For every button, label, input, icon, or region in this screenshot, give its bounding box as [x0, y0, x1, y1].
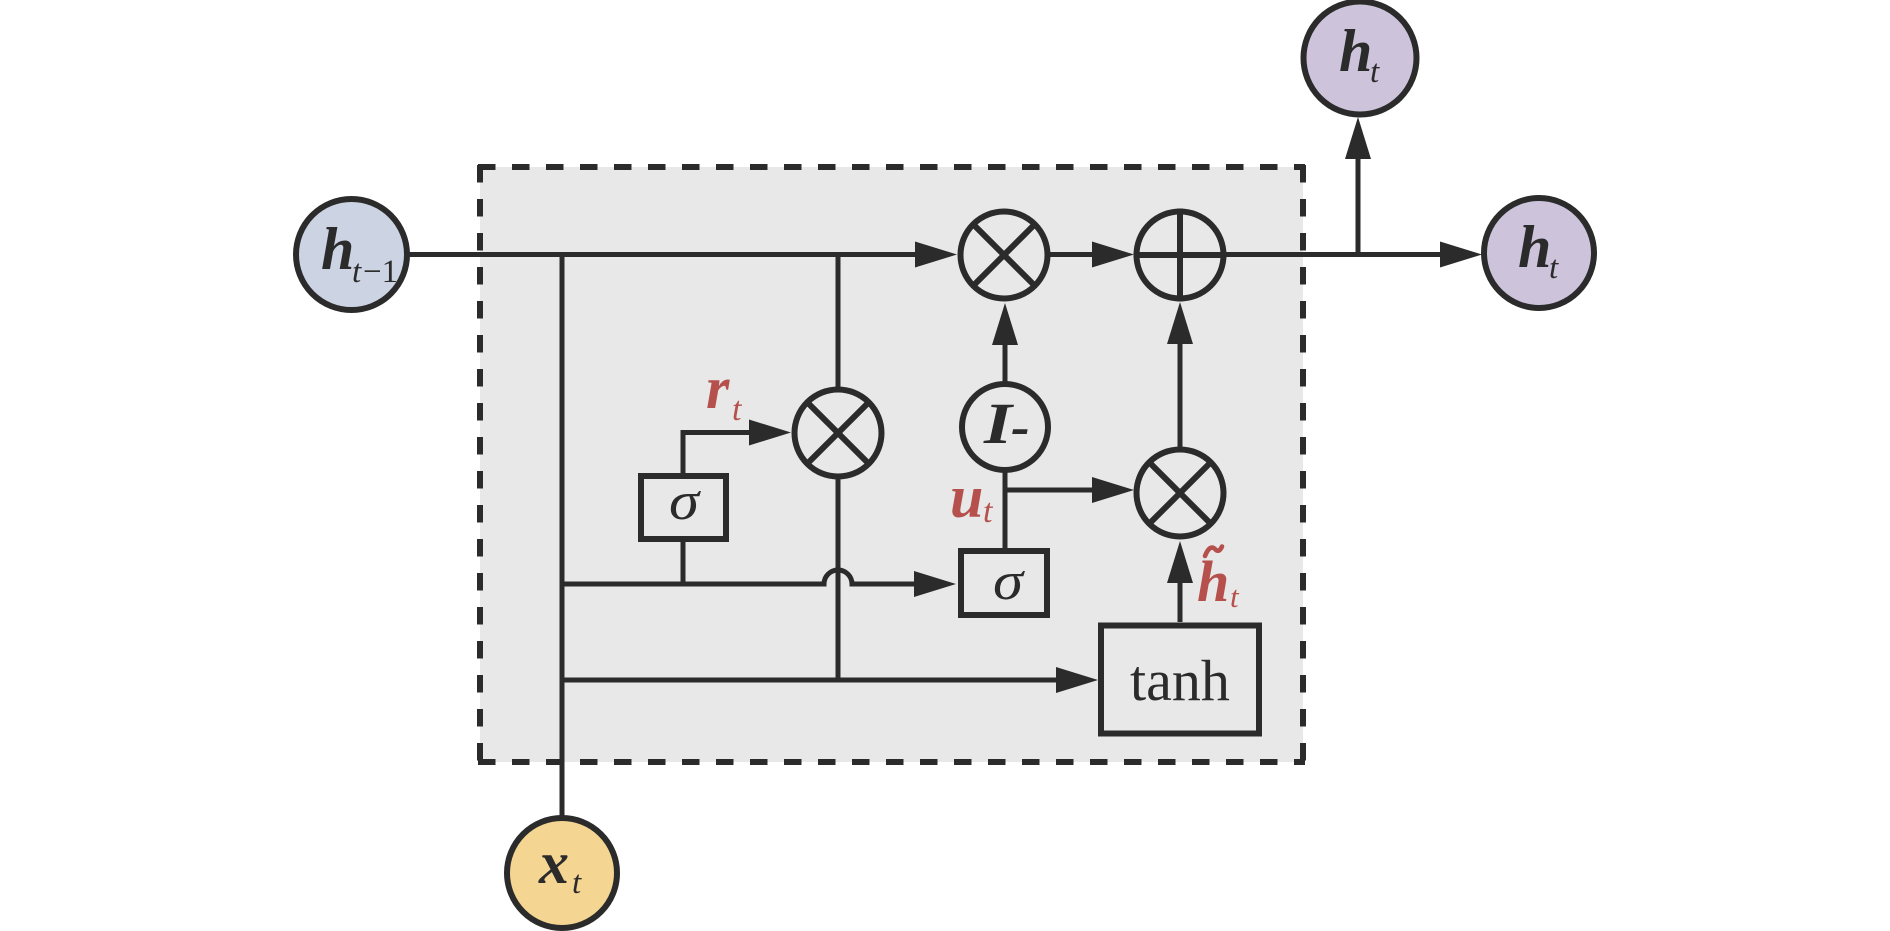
svg-text:u: u	[950, 464, 983, 530]
svg-text:−1: −1	[363, 254, 398, 290]
svg-text:t: t	[1549, 250, 1559, 286]
svg-text:t: t	[352, 254, 362, 290]
svg-text:-: -	[1011, 396, 1030, 458]
svg-text:t: t	[983, 493, 994, 530]
svg-text:h: h	[321, 216, 354, 282]
svg-text:t: t	[572, 865, 582, 901]
svg-text:σ: σ	[993, 551, 1026, 611]
svg-text:h: h	[1197, 549, 1229, 614]
svg-text:r: r	[706, 355, 730, 421]
svg-text:σ: σ	[669, 471, 702, 531]
svg-text:t: t	[732, 391, 743, 428]
svg-text:h: h	[1518, 214, 1551, 280]
svg-text:h: h	[1339, 18, 1372, 84]
svg-text:tanh: tanh	[1130, 648, 1230, 713]
svg-text:x: x	[538, 830, 569, 896]
svg-text:t: t	[1370, 54, 1380, 90]
svg-text:t: t	[1230, 579, 1240, 614]
